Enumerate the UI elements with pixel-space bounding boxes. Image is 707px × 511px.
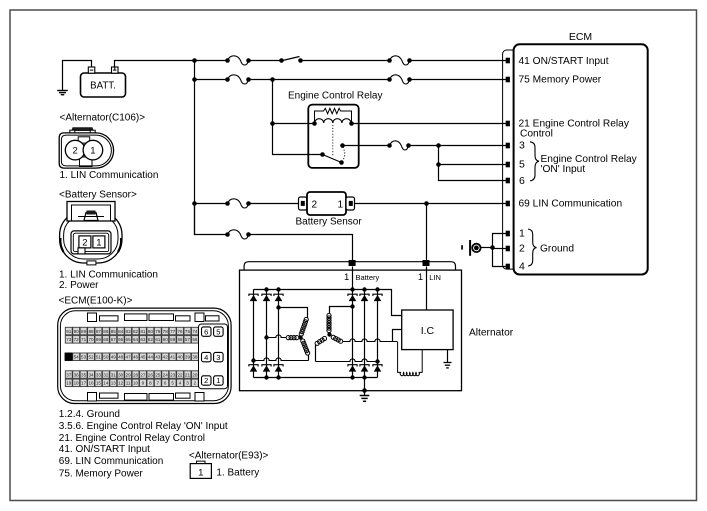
wire branch to pin5 bbox=[439, 146, 507, 165]
svg-text:2: 2 bbox=[204, 376, 208, 385]
svg-text:31: 31 bbox=[111, 372, 117, 377]
wire relay coil to ECM pin21 bbox=[352, 123, 507, 125]
alternator box bbox=[240, 270, 462, 391]
node ground bus bbox=[490, 245, 495, 250]
svg-text:4: 4 bbox=[179, 381, 182, 386]
svg-text:56: 56 bbox=[192, 337, 198, 342]
svg-text:88: 88 bbox=[88, 329, 94, 334]
ECM pin 2 terminal bbox=[506, 246, 510, 252]
svg-text:83: 83 bbox=[126, 329, 132, 334]
svg-text:49: 49 bbox=[111, 355, 117, 360]
svg-text:72: 72 bbox=[74, 337, 80, 342]
svg-text:6: 6 bbox=[519, 175, 525, 187]
svg-text:21: 21 bbox=[185, 372, 191, 377]
svg-text:7: 7 bbox=[157, 381, 160, 386]
svg-text:90: 90 bbox=[74, 329, 80, 334]
svg-text:1: 1 bbox=[198, 467, 203, 478]
svg-text:61: 61 bbox=[155, 337, 161, 342]
resistor in relay bbox=[315, 108, 352, 123]
battery BATT bbox=[81, 66, 126, 97]
fuse F5 relay output bbox=[387, 141, 411, 150]
ECM pin 21 terminal bbox=[506, 121, 510, 127]
svg-text:6: 6 bbox=[164, 381, 167, 386]
svg-text:66: 66 bbox=[118, 337, 124, 342]
fuse F7 alternator feed bbox=[225, 230, 251, 239]
wire rectifier leg 1 bbox=[253, 290, 255, 378]
svg-text:82: 82 bbox=[133, 329, 139, 334]
svg-text:89: 89 bbox=[81, 329, 87, 334]
relay K1 box bbox=[308, 105, 358, 168]
svg-text:69. LIN Communication: 69. LIN Communication bbox=[59, 456, 164, 467]
svg-text:5: 5 bbox=[519, 158, 525, 170]
svg-text:Control: Control bbox=[520, 129, 553, 140]
relay coil bbox=[312, 119, 354, 126]
svg-text:16: 16 bbox=[88, 381, 94, 386]
svg-text:22: 22 bbox=[177, 372, 183, 377]
svg-text:42: 42 bbox=[163, 355, 169, 360]
wire row75 segment B bbox=[249, 79, 390, 81]
svg-text:37: 37 bbox=[66, 372, 72, 377]
svg-text:40: 40 bbox=[177, 355, 183, 360]
svg-text:1.2.4. Ground: 1.2.4. Ground bbox=[59, 409, 120, 420]
svg-text:8: 8 bbox=[149, 381, 152, 386]
svg-text:76: 76 bbox=[177, 329, 183, 334]
wire battery pin into box bbox=[352, 267, 354, 290]
svg-text:74: 74 bbox=[192, 329, 198, 334]
svg-text:5: 5 bbox=[171, 381, 174, 386]
svg-text:53: 53 bbox=[81, 355, 87, 360]
svg-text:1. LIN Communication: 1. LIN Communication bbox=[60, 170, 159, 181]
wire row41 segment A bbox=[195, 60, 228, 62]
svg-text:Alternator: Alternator bbox=[469, 328, 514, 339]
wire battery positive to node bbox=[115, 61, 195, 68]
connector C106 face bbox=[59, 127, 113, 168]
rotor field coil bbox=[398, 342, 423, 376]
svg-text:3: 3 bbox=[216, 353, 220, 362]
svg-text:BATT.: BATT. bbox=[90, 81, 116, 92]
svg-text:36: 36 bbox=[74, 372, 80, 377]
svg-text:23: 23 bbox=[170, 372, 176, 377]
svg-text:34: 34 bbox=[88, 372, 94, 377]
alternator connector housing bbox=[244, 262, 455, 271]
svg-text:I.C: I.C bbox=[421, 325, 435, 337]
svg-text:13: 13 bbox=[111, 381, 117, 386]
svg-text:75. Memory Power: 75. Memory Power bbox=[59, 468, 144, 479]
relay linkage dashed bbox=[332, 125, 334, 156]
connector ECM E100-K face bbox=[58, 308, 231, 403]
wire row69 to battery sensor bbox=[249, 203, 299, 205]
svg-text:3.5.6. Engine Control Relay 'O: 3.5.6. Engine Control Relay 'ON' Input bbox=[59, 421, 228, 432]
ECM pin 5 terminal bbox=[506, 162, 510, 168]
svg-text:2. Power: 2. Power bbox=[59, 280, 99, 291]
svg-text:27: 27 bbox=[140, 372, 146, 377]
wire ground bus bbox=[493, 234, 507, 267]
svg-text:25: 25 bbox=[155, 372, 161, 377]
wire row75 segment A bbox=[195, 79, 228, 81]
svg-text:38: 38 bbox=[192, 355, 198, 360]
svg-text:84: 84 bbox=[118, 329, 124, 334]
svg-text:2: 2 bbox=[519, 242, 525, 254]
svg-text:39: 39 bbox=[185, 355, 191, 360]
svg-text:21. Engine Control Relay Contr: 21. Engine Control Relay Control bbox=[59, 433, 205, 444]
diode top leg 2 bbox=[262, 294, 271, 301]
wire feed bus vertical bbox=[194, 61, 196, 235]
svg-text:24: 24 bbox=[163, 372, 169, 377]
svg-text:11: 11 bbox=[126, 381, 131, 386]
svg-text:75 Memory Power: 75 Memory Power bbox=[519, 74, 602, 85]
svg-text:2: 2 bbox=[194, 381, 197, 386]
svg-text:59: 59 bbox=[170, 337, 176, 342]
svg-text:15: 15 bbox=[96, 381, 102, 386]
svg-text:29: 29 bbox=[126, 372, 132, 377]
svg-text:30: 30 bbox=[118, 372, 124, 377]
svg-text:80: 80 bbox=[148, 329, 154, 334]
fuse F3 row75 bbox=[225, 75, 251, 84]
svg-text:ECM: ECM bbox=[569, 31, 592, 43]
wire rectifier leg 5 bbox=[364, 290, 366, 378]
node top bus junctions bbox=[264, 287, 379, 291]
svg-text:69: 69 bbox=[96, 337, 102, 342]
svg-text:28: 28 bbox=[133, 372, 139, 377]
switch ignition row41 bbox=[279, 57, 303, 63]
svg-text:Battery Sensor: Battery Sensor bbox=[296, 217, 363, 228]
diode top leg 6 bbox=[373, 294, 382, 301]
wire to alternator battery pin bbox=[249, 235, 353, 261]
svg-text:1: 1 bbox=[344, 272, 349, 283]
fuse F6 row69 bbox=[225, 199, 251, 208]
wire to ECM pin3 bbox=[409, 145, 507, 147]
svg-text:35: 35 bbox=[81, 372, 87, 377]
node pin3 branch bbox=[436, 143, 441, 148]
wire eyelet to bus bbox=[481, 247, 493, 249]
diode bottom leg 2 bbox=[262, 365, 271, 372]
battery sensor connector pin1 bbox=[346, 197, 355, 210]
svg-text:5: 5 bbox=[216, 327, 220, 336]
svg-text:73: 73 bbox=[66, 337, 72, 342]
wire battery sensor to ECM pin69 bbox=[355, 203, 507, 205]
ECM pin 75 terminal bbox=[506, 77, 510, 83]
wire LIN pin to IC bbox=[426, 267, 428, 311]
wire LIN to alternator pin bbox=[426, 204, 428, 261]
svg-text:45: 45 bbox=[140, 355, 146, 360]
svg-text:68: 68 bbox=[103, 337, 109, 342]
node relay feed junction bbox=[270, 77, 275, 82]
relay switch contacts bbox=[320, 143, 345, 165]
diode bottom leg 5 bbox=[360, 365, 369, 372]
svg-text:79: 79 bbox=[155, 329, 161, 334]
svg-text:Engine Control Relay: Engine Control Relay bbox=[288, 91, 383, 102]
svg-text:87: 87 bbox=[96, 329, 102, 334]
svg-text:57: 57 bbox=[185, 337, 191, 342]
ECM pin 3 terminal bbox=[506, 143, 510, 149]
wire ground pin2 bbox=[493, 248, 507, 250]
ECM pin 6 terminal bbox=[506, 178, 510, 184]
svg-text:81: 81 bbox=[140, 329, 146, 334]
node pin5 branch bbox=[436, 162, 441, 167]
svg-text:18: 18 bbox=[74, 381, 80, 386]
wire rectifier ground drop bbox=[364, 378, 366, 396]
wire rectifier top bus bbox=[254, 290, 402, 316]
svg-text:6: 6 bbox=[204, 327, 208, 336]
svg-text:50: 50 bbox=[103, 355, 109, 360]
svg-text:2: 2 bbox=[312, 199, 318, 210]
svg-text:64: 64 bbox=[133, 337, 139, 342]
diode bottom leg 3 bbox=[274, 365, 283, 372]
svg-text:14: 14 bbox=[103, 381, 109, 386]
node battery feed junction bbox=[192, 58, 197, 63]
svg-text:20: 20 bbox=[192, 372, 198, 377]
ECM pin 4 terminal bbox=[506, 264, 510, 270]
diode bottom leg 1 bbox=[249, 365, 258, 372]
svg-text:77: 77 bbox=[170, 329, 176, 334]
label 1 LIN bbox=[418, 272, 441, 283]
svg-text:47: 47 bbox=[126, 355, 132, 360]
ECM connector bracket bbox=[503, 50, 517, 269]
svg-text:65: 65 bbox=[126, 337, 132, 342]
diode top leg 1 bbox=[249, 294, 258, 301]
node LIN branch bbox=[424, 201, 429, 206]
svg-text:4: 4 bbox=[519, 261, 525, 273]
connector E93 bbox=[190, 461, 211, 478]
svg-text:LIN: LIN bbox=[429, 273, 441, 282]
svg-text:48: 48 bbox=[118, 355, 124, 360]
svg-text:12: 12 bbox=[118, 381, 124, 386]
node bottom bus junctions bbox=[264, 375, 366, 379]
svg-text:<Battery Sensor>: <Battery Sensor> bbox=[59, 190, 137, 201]
alternator LIN pin bbox=[423, 260, 430, 266]
ECM box bbox=[514, 44, 648, 274]
fuse F4 row75 bbox=[387, 75, 412, 84]
svg-text:41. ON/START Input: 41. ON/START Input bbox=[59, 444, 150, 455]
svg-text:46: 46 bbox=[133, 355, 139, 360]
wire rectifier leg 3 bbox=[278, 290, 280, 378]
svg-text:Battery: Battery bbox=[356, 273, 380, 282]
svg-text:91: 91 bbox=[66, 329, 72, 334]
svg-text:1: 1 bbox=[96, 237, 101, 248]
svg-text:9: 9 bbox=[142, 381, 145, 386]
wire row41 to ECM pin41 bbox=[410, 60, 507, 62]
diode bottom leg 4 bbox=[348, 365, 357, 372]
wire row75 to ECM pin75 bbox=[410, 79, 507, 81]
wire row41 segment C bbox=[301, 60, 390, 62]
brace pins 1-2-4 bbox=[528, 229, 537, 266]
wire relay output bbox=[343, 145, 390, 147]
ground alternator bbox=[360, 396, 370, 402]
ECM pin 1 terminal bbox=[506, 231, 510, 237]
svg-text:70: 70 bbox=[88, 337, 94, 342]
wire rectifier leg 4 bbox=[352, 290, 354, 378]
svg-text:4: 4 bbox=[204, 353, 208, 362]
svg-text:<ECM(E100-K)>: <ECM(E100-K)> bbox=[59, 296, 133, 307]
svg-text:62: 62 bbox=[148, 337, 154, 342]
battery sensor box bbox=[307, 192, 346, 215]
svg-text:1: 1 bbox=[216, 376, 220, 385]
battery sensor connector pin2 bbox=[299, 197, 308, 210]
node relay coil branch bbox=[270, 121, 275, 126]
svg-text:69 LIN Communication: 69 LIN Communication bbox=[519, 198, 623, 209]
svg-text:32: 32 bbox=[103, 372, 109, 377]
svg-text:<Alternator(C106)>: <Alternator(C106)> bbox=[60, 112, 146, 123]
diode top leg 5 bbox=[360, 294, 369, 301]
svg-text:19: 19 bbox=[66, 381, 72, 386]
IC box bbox=[402, 310, 453, 350]
wire row69 segment A bbox=[195, 203, 228, 205]
svg-text:33: 33 bbox=[96, 372, 102, 377]
wire alternator battery feed bbox=[195, 204, 228, 235]
svg-text:51: 51 bbox=[96, 355, 102, 360]
svg-text:75: 75 bbox=[185, 329, 191, 334]
ground bolt symbol bbox=[461, 240, 480, 256]
svg-text:Ground: Ground bbox=[540, 243, 574, 254]
wire relay feed vertical bbox=[273, 80, 323, 155]
svg-text:3: 3 bbox=[519, 139, 525, 151]
ECM pin 69 terminal bbox=[506, 201, 510, 207]
ground IC bbox=[444, 363, 452, 368]
fuse F2 row41 bbox=[387, 56, 412, 65]
svg-text:<Alternator(E93)>: <Alternator(E93)> bbox=[189, 450, 269, 461]
wire IC ground bbox=[447, 350, 449, 363]
svg-text:86: 86 bbox=[103, 329, 109, 334]
svg-text:26: 26 bbox=[148, 372, 154, 377]
wire stator sense to IC bbox=[393, 330, 402, 342]
svg-text:85: 85 bbox=[111, 329, 117, 334]
svg-text:10: 10 bbox=[133, 381, 139, 386]
label 1 Battery bbox=[344, 272, 380, 283]
svg-text:3: 3 bbox=[186, 381, 189, 386]
svg-text:1. LIN Communication: 1. LIN Communication bbox=[59, 269, 158, 280]
svg-text:41: 41 bbox=[170, 355, 176, 360]
diode top leg 3 bbox=[274, 294, 283, 301]
wire rectifier bottom bus bbox=[254, 377, 378, 379]
svg-text:54: 54 bbox=[74, 355, 80, 360]
brace pins 3-5-6 bbox=[530, 142, 539, 181]
svg-text:71: 71 bbox=[81, 337, 87, 342]
svg-text:1: 1 bbox=[338, 199, 344, 210]
wire rectifier leg 6 bbox=[377, 290, 379, 378]
svg-text:17: 17 bbox=[81, 381, 87, 386]
svg-text:'ON' Input: 'ON' Input bbox=[541, 164, 586, 175]
wire rectifier leg 2 bbox=[266, 290, 268, 378]
svg-text:52: 52 bbox=[88, 355, 94, 360]
stator winding right star bbox=[315, 304, 397, 363]
svg-text:44: 44 bbox=[148, 355, 154, 360]
node alternator case ground bbox=[362, 388, 367, 393]
svg-text:1. Battery: 1. Battery bbox=[216, 467, 259, 478]
svg-text:41 ON/START Input: 41 ON/START Input bbox=[519, 56, 609, 67]
connector battery sensor face bbox=[60, 202, 122, 265]
alternator battery pin bbox=[349, 260, 356, 266]
ground at battery bbox=[57, 91, 68, 95]
svg-text:78: 78 bbox=[163, 329, 169, 334]
ECM pin 41 terminal bbox=[506, 58, 510, 64]
svg-text:2: 2 bbox=[82, 237, 87, 248]
wire row41 segment B bbox=[249, 60, 282, 62]
fuse F1 row41 bbox=[225, 56, 251, 65]
svg-text:67: 67 bbox=[111, 337, 117, 342]
diode bottom leg 6 bbox=[373, 365, 382, 372]
svg-text:1: 1 bbox=[90, 146, 95, 157]
diode top leg 4 bbox=[348, 294, 357, 301]
wire relay coil left bbox=[273, 123, 315, 125]
svg-text:60: 60 bbox=[163, 337, 169, 342]
svg-text:1: 1 bbox=[519, 227, 525, 239]
svg-text:58: 58 bbox=[177, 337, 183, 342]
stator winding left star bbox=[251, 305, 309, 362]
svg-text:1: 1 bbox=[418, 272, 423, 283]
svg-text:2: 2 bbox=[72, 146, 77, 157]
svg-text:43: 43 bbox=[155, 355, 161, 360]
svg-text:63: 63 bbox=[140, 337, 146, 342]
wire battery negative to ground bbox=[63, 61, 92, 91]
wire branch to pin6 bbox=[439, 165, 507, 181]
